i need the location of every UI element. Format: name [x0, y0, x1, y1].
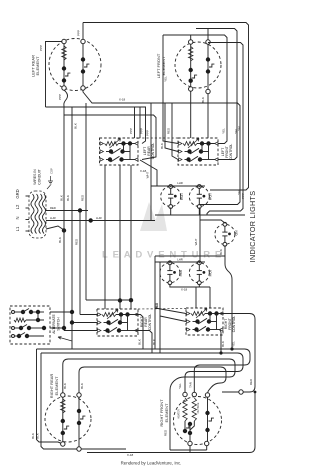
element E3 left branch wire [62, 395, 64, 444]
element E2 right dot upper [206, 57, 210, 61]
wire E2 top-left bus [163, 35, 227, 144]
svg-text:CONTROL: CONTROL [151, 143, 155, 160]
element E4 left top terminal [183, 392, 187, 396]
label LEFT REAR CONTROL [143, 143, 155, 160]
label OUTSIDE inside E4 [197, 402, 200, 413]
wire E3 right terminal up [79, 367, 226, 394]
wire label BLK below E2 [201, 97, 205, 103]
decorative watermark text [102, 250, 226, 261]
element E1 left branch wire [63, 42, 65, 89]
svg-text:ELEMENT: ELEMENT [54, 376, 59, 395]
element E4 right dot lower [205, 428, 209, 432]
junction dot ctrl top [118, 298, 122, 302]
wire ON lamp feed [200, 220, 226, 224]
label BLK rr a [138, 339, 142, 345]
element E3 right dot upper [77, 409, 81, 413]
element E4 bottom terminal right [205, 441, 209, 445]
element E2 left dot lower [189, 79, 193, 83]
wire bottom lamp bus [155, 261, 205, 263]
svg-text:YEL: YEL [232, 341, 236, 347]
caption Rendered by LeadVenture Inc [121, 461, 182, 466]
svg-text:HOT: HOT [209, 193, 213, 200]
svg-text:YEL: YEL [178, 383, 182, 389]
label GRD wire [50, 168, 54, 174]
svg-text:LHR: LHR [96, 216, 102, 220]
svg-text:RED: RED [50, 206, 56, 210]
svg-text:YEL: YEL [164, 76, 168, 82]
svg-text:RED: RED [155, 302, 159, 309]
label HOT DS4 [179, 269, 183, 276]
wire RF ctrl right lower [220, 330, 222, 354]
wire mid bus y256 [155, 255, 225, 257]
svg-text:GRD: GRD [15, 189, 20, 198]
svg-text:OUTSIDE: OUTSIDE [197, 402, 200, 413]
wire DS5 top stub [198, 262, 200, 263]
label LHR on wht wire [96, 216, 102, 220]
wire drop to LR control b [139, 107, 141, 138]
wire alt switch top feed [50, 311, 72, 313]
left rear surface element E1 enclosure [49, 39, 101, 91]
svg-text:HEATER: HEATER [178, 409, 181, 419]
label INDICATOR LIGHTS [248, 191, 257, 263]
svg-text:L1: L1 [15, 226, 20, 231]
element E2 right switch [209, 64, 214, 67]
right front control S4 (infinite switch) [186, 308, 223, 335]
mechanical link dash bottom controls [138, 308, 186, 311]
element E3 left dot [61, 419, 65, 423]
wire x74 into right rear control [72, 322, 97, 324]
svg-text:X-18: X-18 [119, 98, 126, 102]
wire L1 feed to E1 top [46, 42, 62, 108]
label WHT left lamp [146, 171, 150, 178]
wire DS2 bottom stub [198, 208, 200, 216]
wire E2 right bottom drop [207, 94, 209, 139]
right rear surface element E3 enclosure [45, 396, 91, 442]
element E4 resistor a [183, 398, 187, 421]
wire label RED x172 [167, 127, 171, 134]
wire DS2 top stub [198, 186, 200, 187]
element E1 right branch wire [82, 42, 84, 89]
svg-text:CONTROL: CONTROL [148, 314, 152, 331]
label HOT DS2 [209, 193, 213, 200]
svg-text:BLK: BLK [201, 97, 205, 103]
element E4 right top terminal [205, 393, 209, 397]
indicator lamp DS4 (right rear hot) [160, 261, 180, 285]
element E1 right dot lower [81, 69, 85, 73]
svg-text:CONTROL: CONTROL [229, 144, 233, 161]
element E2 left bottom terminal [189, 87, 193, 91]
svg-text:BLK: BLK [219, 249, 223, 255]
svg-text:HOT: HOT [179, 269, 183, 276]
svg-text:BLK: BLK [36, 433, 40, 439]
wire lamp bottom bus [155, 214, 245, 216]
wire LR ctrl drop a [104, 165, 106, 309]
junction x64 y328 [62, 326, 66, 330]
wire label YEL above ctrl [222, 128, 226, 134]
element E4 left lower wires [185, 421, 194, 443]
svg-text:PPP: PPP [39, 45, 43, 51]
svg-text:LHR: LHR [177, 258, 183, 262]
wire RED from cord [46, 210, 88, 212]
label WHT cord wire [50, 216, 56, 220]
wire drop x165 diag to LF ctrl [165, 103, 178, 152]
wire red down to bottom bus [87, 392, 255, 453]
wire label BLK x165 [160, 143, 164, 149]
wire drop x172 diag to LF ctrl [172, 103, 178, 160]
element E4 bottom terminal left [188, 441, 192, 445]
element E4 resistor b [192, 398, 196, 421]
element E2 left switch [192, 75, 197, 78]
svg-text:BLK: BLK [160, 143, 164, 149]
wire BLK from cord diagonal [46, 226, 64, 230]
junction dot wht bus [89, 218, 93, 222]
label RED x86 [81, 194, 85, 201]
label RIGHT REAR CONTROL [140, 314, 152, 331]
wire bus B y353 [41, 353, 243, 394]
label ON DS3 [235, 230, 239, 236]
svg-text:BLK: BLK [60, 195, 64, 201]
indicator lamp DS1 (left rear hot) [161, 185, 181, 209]
svg-text:Rendered by LeadVenture, Inc.: Rendered by LeadVenture, Inc. [121, 461, 182, 466]
label BLK E3 left [63, 383, 67, 389]
element E4 left switch [186, 425, 191, 428]
svg-text:CONTROL: CONTROL [232, 316, 236, 333]
label LEFT FRONT CONTROL [221, 144, 233, 161]
svg-text:N: N [15, 216, 20, 219]
wire LR ctrl drop c [130, 165, 132, 309]
wire E2 right terminal stub up [207, 29, 209, 41]
label RED x79 [75, 238, 79, 245]
wire RED from RF control [220, 314, 256, 393]
svg-text:BLK: BLK [80, 383, 84, 389]
label RED right margin [249, 378, 253, 385]
label WIRES IN CONDUIT [33, 169, 42, 185]
label BLK bottom left a [31, 433, 35, 439]
wire DS1 bottom stub [170, 208, 172, 216]
element E3 right switch [80, 416, 85, 419]
wire bus y115 from E1 left [64, 115, 156, 160]
svg-text:RED: RED [167, 127, 171, 134]
svg-text:YEL: YEL [222, 128, 226, 134]
svg-text:SWITCH: SWITCH [57, 317, 61, 331]
element E4 right switch [209, 418, 214, 421]
wire E2 left drop to control [163, 35, 178, 144]
svg-text:RED: RED [81, 194, 85, 201]
label RED x160 [155, 302, 159, 309]
wire DS5 bottom stub [198, 284, 200, 287]
svg-text:PPP: PPP [146, 130, 150, 136]
junction dot blk [62, 228, 66, 232]
wire bus B left drop [41, 353, 126, 449]
junction dot red bus [78, 208, 82, 212]
element E2 left branch wire [190, 42, 192, 89]
wire DS1 top stub [170, 186, 172, 187]
mechanical link dash between controls [138, 137, 178, 139]
svg-text:PPP: PPP [77, 30, 81, 36]
element E4 right dot upper [205, 411, 209, 415]
wire vertical x86 [85, 103, 87, 300]
svg-text:ON: ON [235, 230, 239, 236]
wire vertical RED x79 [79, 211, 81, 315]
element E3 left switch [64, 426, 69, 429]
element E1 right top terminal [81, 39, 85, 43]
wire top bus L2 to right side [83, 23, 249, 191]
wire label PPP below E1 [58, 94, 62, 100]
svg-text:RED: RED [249, 378, 253, 385]
svg-text:RED: RED [164, 429, 168, 436]
left front control S2 (infinite switch) [178, 138, 218, 165]
element E2 right branch wire [207, 42, 209, 92]
element E3 left bottom terminal [61, 442, 65, 446]
wire label PPP top-left [39, 45, 43, 51]
svg-text:BLK: BLK [221, 341, 225, 347]
element E3 right top terminal [77, 393, 81, 397]
svg-text:PPP: PPP [129, 128, 133, 134]
ground symbol [47, 176, 53, 189]
svg-text:LEADVENTURE: LEADVENTURE [102, 250, 226, 261]
svg-text:ALTERNATE: ALTERNATE [52, 314, 56, 334]
wire RR ctrl right to bus b [135, 331, 153, 354]
alternate switch S5 [10, 306, 50, 344]
wire label PPP ctrl b [140, 128, 144, 134]
wire E2 left bottom drop [190, 91, 192, 138]
wire feed into RF ctrl left a [155, 308, 186, 314]
svg-text:YEL: YEL [234, 128, 238, 134]
label BLK bottom left b [36, 433, 40, 439]
wire L1 bus y107 [46, 107, 146, 144]
svg-text:CONDUIT: CONDUIT [38, 169, 42, 184]
svg-text:ELEMENT: ELEMENT [161, 56, 166, 75]
wire RR ctrl right to bus a [135, 315, 144, 350]
wire left drop x155 to bus [154, 256, 156, 349]
wire x160 drop [159, 262, 161, 353]
element E2 right top terminal [206, 40, 210, 44]
svg-text:BLK: BLK [31, 433, 35, 439]
wire vertical x74 [71, 107, 73, 349]
label LHR top lamp bus [177, 181, 183, 185]
element E1 junction dot upper [62, 66, 66, 70]
svg-text:ELEMENT: ELEMENT [164, 403, 169, 422]
element E4 right branch wire [207, 397, 209, 443]
label RED cord wire [50, 206, 56, 210]
svg-text:TAN: TAN [189, 382, 193, 388]
wire E1 right branch to top bus [82, 23, 84, 40]
svg-text:BLK: BLK [58, 237, 62, 243]
wire bus A left drop [37, 349, 63, 444]
power cord (wires in conduit) [26, 191, 47, 238]
svg-text:LHR: LHR [177, 181, 183, 185]
label LHR bottom lamp bus [177, 258, 183, 262]
wire drop WHT to lamps [150, 103, 152, 221]
label X-18 bottom [127, 453, 134, 457]
wire bus A y349 [37, 349, 251, 394]
svg-text:HOT: HOT [180, 193, 184, 200]
indicator lamp DS2 (left front hot) [189, 185, 209, 209]
element E3 right bottom terminal [77, 447, 81, 451]
svg-text:X-18: X-18 [127, 453, 134, 457]
element E1 resistor [62, 46, 66, 60]
label YEL lamp right [237, 189, 241, 195]
element E3 left top terminal [61, 393, 65, 397]
element E2 right bottom terminal [206, 89, 210, 93]
element E1 left bottom terminal [62, 86, 66, 90]
wire lamp return bus y287 [170, 284, 210, 287]
svg-text:BLK: BLK [63, 383, 67, 389]
element E2 left top terminal [189, 40, 193, 44]
svg-text:INDICATOR LIGHTS: INDICATOR LIGHTS [248, 191, 257, 263]
label HOT DS5 [209, 269, 213, 276]
wire WHT from cord [46, 220, 155, 222]
wire E1 bottom diagonal to L2 bus [83, 90, 240, 262]
wire lamp return drop a [195, 287, 197, 308]
element E1 left top terminal [62, 39, 66, 43]
label YEL under RF ctrl [232, 341, 236, 347]
svg-text:L2: L2 [15, 204, 20, 209]
element E1 thermal switch [65, 73, 70, 76]
junction dot x74 y322 [70, 320, 74, 324]
svg-text:PPP: PPP [58, 94, 62, 100]
wire label PPP ctrl c [146, 130, 150, 136]
label L1 N L2 GRD [15, 189, 20, 231]
wire alt switch row3 [50, 327, 64, 329]
svg-text:PPP: PPP [241, 193, 245, 199]
svg-text:WHT: WHT [146, 171, 150, 178]
element E4 left dots [183, 422, 192, 435]
svg-text:X-18: X-18 [181, 288, 188, 292]
label LEFT REAR ELEMENT [31, 55, 41, 77]
wire E2 left terminal stub up [190, 35, 192, 40]
wire LR ctrl pilot diagonal [140, 160, 157, 186]
left rear control S1 (infinite switch) [100, 138, 139, 165]
element E3 left dot lower [61, 431, 65, 435]
label X-18 top bus [119, 98, 126, 102]
label RIGHT FRONT CONTROL [224, 316, 236, 333]
element E2 resistor [189, 47, 193, 62]
element E1 right switch [84, 64, 89, 67]
svg-text:PPP: PPP [140, 128, 144, 134]
svg-text:RED: RED [75, 238, 79, 245]
junction dots RF bottoms [219, 347, 233, 354]
wire E2 right terminal bus [207, 43, 243, 216]
label RIGHT REAR ELEMENT [49, 374, 59, 399]
svg-text:WIRES IN: WIRES IN [33, 169, 37, 185]
label BLK E3 right [80, 383, 84, 389]
label BLK under RF right [221, 341, 225, 347]
label RED E4 lower left [164, 429, 168, 436]
wire E2 upper-right bus [196, 29, 237, 160]
label BLK rr b [152, 339, 156, 345]
label TAN E4 b [189, 382, 193, 388]
right front surface element E4 enclosure [174, 397, 222, 445]
junction dot ctrl top b [129, 298, 133, 302]
svg-text:LHR: LHR [50, 216, 56, 220]
wire label YEL at E2 left [164, 76, 168, 82]
wire label BLK mid [74, 123, 78, 129]
element E4 mid top terminal [192, 392, 196, 396]
wire lamp return drop b [209, 287, 211, 308]
element E2 left dot [189, 68, 193, 72]
wire ON lamp bottom [225, 245, 232, 349]
element E1 junction dot lower [62, 78, 66, 82]
wire x79 into right rear control [80, 314, 97, 316]
element E3 right dot lower [77, 421, 81, 425]
wire label PPP E1 right [77, 30, 81, 36]
label WHT x200 [194, 238, 198, 245]
svg-text:WHT: WHT [194, 238, 198, 245]
label HEATER inside E4 [178, 409, 181, 419]
wire label PPP ctrl a [129, 128, 133, 134]
wire feed into RF ctrl left b [160, 316, 186, 322]
wire E3 left terminal up to bus [63, 359, 235, 450]
label X-18 lamp bottom [181, 288, 188, 292]
svg-text:BLK: BLK [152, 339, 156, 345]
svg-text:BLK: BLK [74, 123, 78, 129]
svg-text:BLK: BLK [138, 339, 142, 345]
label YEL E4 a [178, 383, 182, 389]
element E1 right dot upper [81, 57, 85, 61]
label PPP lamp right [241, 193, 245, 199]
label BLK x64 upper [60, 195, 64, 201]
wire drop to LR control a [134, 107, 136, 138]
svg-text:ELEMENT: ELEMENT [35, 56, 40, 75]
wire x86 bus into control top [86, 299, 131, 301]
label X-18 under left rear control [140, 169, 147, 173]
element E3 right branch wire [78, 395, 80, 449]
svg-text:HOT: HOT [209, 269, 213, 276]
label BLK under ON [219, 249, 223, 255]
alternate switch pointer arrow [58, 337, 72, 341]
label ALTERNATE SWITCH [52, 314, 61, 334]
wire x64 into right rear control [64, 330, 97, 332]
left front surface element E2 enclosure [175, 42, 221, 88]
wire label YEL right margin [237, 125, 241, 131]
wire E4 bottoms to bus [170, 446, 207, 453]
wire DS4 top stub [169, 262, 171, 263]
wire LR ctrl drop b [119, 165, 121, 309]
junction dot red corner [254, 391, 257, 394]
element E2 right dot lower [206, 69, 210, 73]
terminal on RED wire [239, 390, 243, 394]
label RED right of RR ctrl [155, 302, 159, 309]
wire label YEL above ctrl 2 [234, 128, 238, 134]
indicator lamp DS3 (oven on) [215, 222, 235, 246]
junction x72 y312 [70, 310, 74, 314]
decorative watermark logo [140, 202, 167, 231]
label BLK cord wire [58, 237, 62, 243]
wire top lamp bus [151, 185, 205, 187]
svg-text:BLK: BLK [66, 195, 70, 201]
label LEFT FRONT ELEMENT [156, 53, 166, 78]
label HOT DS1 [180, 193, 184, 200]
label BLK x74 [66, 195, 70, 201]
element E3 resistor [61, 399, 65, 413]
wire vertical BLK x64 [64, 90, 68, 331]
label RIGHT FRONT ELEMENT [159, 399, 169, 427]
indicator lamp DS5 (right front hot) [189, 261, 209, 285]
element E1 right bottom terminal [81, 86, 85, 90]
svg-text:COP: COP [50, 168, 54, 174]
right rear control S3 (infinite switch) [97, 309, 138, 336]
